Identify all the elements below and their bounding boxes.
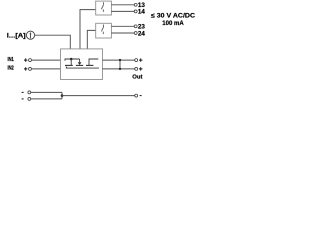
body diode D1 — [79, 59, 81, 62]
node tie bottom — [119, 68, 121, 70]
terminal out + lower — [135, 67, 138, 70]
wire IN1 to module — [32, 59, 61, 61]
polarity - supply 2 — [22, 98, 24, 100]
svg-text:Out: Out — [132, 74, 142, 80]
svg-text:24: 24 — [138, 30, 145, 37]
contact box K2 (23/24) — [96, 23, 112, 38]
terminal IN1 — [29, 59, 32, 62]
wire module to out terminal 2 — [103, 68, 135, 70]
svg-text:100 mA: 100 mA — [162, 20, 184, 27]
relay contact S1 — [101, 2, 103, 12]
terminal minus out — [135, 94, 138, 97]
wire module top to contact box 13/14 — [80, 10, 96, 49]
module box U1 — [61, 49, 103, 80]
polarity + IN1 — [24, 58, 27, 61]
svg-text:≤ 30 V AC/DC: ≤ 30 V AC/DC — [151, 12, 195, 19]
node tie top — [119, 59, 121, 61]
wire IN2 to module — [32, 68, 61, 70]
mosfet Q1 drain line — [65, 59, 80, 61]
terminal 13 — [134, 3, 137, 6]
terminal IN2 — [29, 67, 32, 70]
polarity - supply 1 — [22, 91, 24, 93]
mosfet Q1 drain lead — [70, 59, 72, 65]
terminal 14 — [134, 10, 137, 13]
svg-text:IN1: IN1 — [8, 57, 14, 63]
wire contact to terminal 23 — [111, 25, 134, 27]
wire module top to contact box 23/24 — [87, 30, 95, 49]
wire supply to minus terminal — [62, 95, 135, 97]
wire supply 2 — [31, 98, 62, 100]
wire contact to terminal 13 — [111, 4, 134, 6]
terminal supply 2 — [28, 97, 31, 100]
terminal 24 — [134, 32, 137, 35]
wire contact to terminal 24 — [111, 32, 134, 34]
terminal supply 1 — [28, 91, 31, 94]
wire current source to module top — [35, 35, 71, 49]
node drain junction — [70, 58, 73, 61]
svg-text:14: 14 — [138, 9, 145, 16]
wire supply tie — [61, 92, 63, 99]
svg-text:IN2: IN2 — [8, 66, 14, 72]
terminal out + upper — [135, 59, 138, 62]
mosfet Q1 source lead — [89, 59, 98, 65]
node supply junction — [61, 94, 64, 97]
svg-text:I...[A]: I...[A] — [7, 32, 26, 39]
polarity - out — [140, 95, 142, 97]
wire output tie — [119, 60, 121, 69]
current source B1 — [26, 31, 34, 39]
mosfet Q1 channel — [65, 64, 93, 66]
terminal 23 — [134, 25, 137, 28]
wire contact to terminal 14 — [111, 10, 134, 12]
mosfet Q1 gate — [66, 66, 99, 68]
polarity + IN2 — [24, 67, 27, 70]
wire supply 1 — [31, 91, 62, 93]
relay contact S2 — [101, 25, 103, 35]
wire module to out terminal 1 — [103, 59, 135, 61]
contact box K1 (13/14) — [96, 1, 112, 15]
